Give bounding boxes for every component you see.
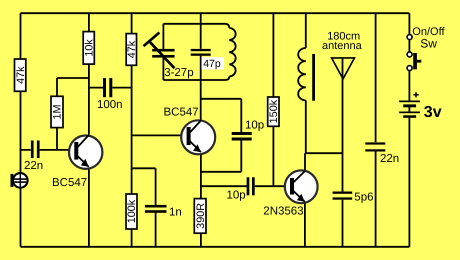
resistor 47k (mic load) <box>15 59 27 91</box>
capacitor 5p6 plates <box>333 192 353 200</box>
resistor 1M <box>51 96 64 127</box>
svg-text:1M: 1M <box>52 104 64 119</box>
wire tank circuit rectangle <box>163 24 229 80</box>
transistor Q2 BC547 <box>181 120 215 154</box>
svg-text:10p: 10p <box>245 120 264 132</box>
wire top supply rail <box>21 12 410 14</box>
svg-text:10p: 10p <box>227 190 246 202</box>
wire right branch to switch and battery <box>408 13 410 247</box>
svg-text:Sw: Sw <box>420 36 437 50</box>
svg-text:3v: 3v <box>424 104 442 121</box>
wire 22n to Q1 base <box>21 149 69 151</box>
wire L2 choke vertical / Q3 collector <box>304 13 307 170</box>
svg-text:5p6: 5p6 <box>354 191 373 203</box>
resistor 100k <box>126 194 138 229</box>
svg-text:BC547: BC547 <box>52 177 87 189</box>
wire collector node to antenna node <box>305 152 342 154</box>
svg-text:10k: 10k <box>83 39 95 57</box>
svg-text:22n: 22n <box>380 153 399 165</box>
wire Q2 emitter <box>200 155 202 247</box>
wire antenna / 5p6 vertical <box>342 58 344 247</box>
capacitor 10p (coupling) plates <box>247 177 255 195</box>
wire 100n coupling <box>89 87 132 89</box>
label On/Off Sw <box>412 26 445 50</box>
resistor 150k <box>268 97 280 126</box>
inductor L2 RF choke <box>298 48 306 100</box>
svg-text:150k: 150k <box>268 99 280 123</box>
wire 1M top to collector node <box>57 78 89 150</box>
wire 1n tap <box>132 168 156 247</box>
wire bottom ground rail <box>21 246 410 248</box>
wire left branch vertical (rail to mic to ground) <box>20 13 22 247</box>
resistor 390R <box>194 199 207 234</box>
inductor L1 tank coil <box>229 28 235 77</box>
label 47p on white box <box>202 57 225 70</box>
capacitor 10p (feedback) plates <box>232 132 252 141</box>
svg-text:3-27p: 3-27p <box>164 67 193 79</box>
wire Q3 base node <box>201 185 285 187</box>
capacitor 1n plates <box>145 205 167 213</box>
svg-text:antenna: antenna <box>322 40 363 52</box>
transistor Q3 2N3563 <box>285 170 318 203</box>
svg-text:22n: 22n <box>24 160 43 172</box>
svg-text:1n: 1n <box>169 206 182 218</box>
resistor 47k (second stage) <box>126 34 138 66</box>
battery 3v <box>399 92 420 118</box>
svg-text:47p: 47p <box>203 58 221 70</box>
wire Q3 emitter to ground <box>304 203 306 247</box>
resistor 10k <box>83 32 95 65</box>
svg-text:100k: 100k <box>126 199 138 223</box>
wire 22n decoupling vertical <box>375 13 377 247</box>
trimmer capacitor 3-27p <box>144 33 175 69</box>
electret microphone MIC <box>11 173 28 188</box>
wire 10k / Q1 collector-emitter vertical <box>88 13 90 247</box>
svg-text:47k: 47k <box>126 40 138 58</box>
wire tank middle / 47p / Q2 collector <box>200 13 202 120</box>
label 180cm antenna <box>322 31 363 53</box>
switch On/Off Sw <box>407 35 421 71</box>
wire Q2 base <box>132 134 181 136</box>
capacitor 47p plates <box>191 49 211 56</box>
antenna 180cm <box>332 58 355 79</box>
capacitor 100n plates <box>103 78 112 97</box>
svg-text:BC547: BC547 <box>164 107 199 119</box>
svg-text:100n: 100n <box>97 99 123 111</box>
transistor Q1 BC547 <box>69 135 102 169</box>
svg-text:390R: 390R <box>195 203 207 229</box>
wire 10p feedback loop <box>201 99 241 172</box>
wire 47k2 / 100k branch vertical <box>131 13 133 247</box>
inductor L2 core bar <box>312 54 315 101</box>
svg-text:47k: 47k <box>15 66 27 84</box>
svg-text:2N3563: 2N3563 <box>263 206 303 218</box>
capacitor 22n (mic coupling) plates <box>31 141 40 159</box>
wire 150k vertical <box>272 13 274 186</box>
capacitor 22n (decoupling) plates <box>365 142 385 151</box>
